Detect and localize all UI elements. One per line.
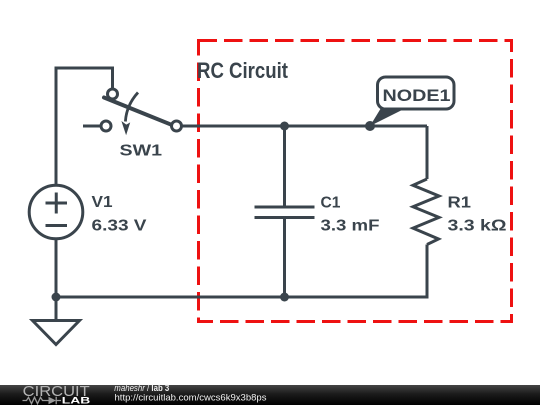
left throw terminal circle <box>101 121 111 131</box>
wire resistor bottom to rail <box>426 245 429 299</box>
svg-text:3.3 kΩ: 3.3 kΩ <box>448 218 507 235</box>
ground symbol <box>33 297 80 345</box>
wire V1 bottom to ground rail <box>55 239 58 298</box>
callout bubble <box>378 77 455 109</box>
top terminal circle <box>108 89 118 99</box>
junction dot capacitor bottom <box>280 293 289 302</box>
node NODE1 callout <box>365 77 454 131</box>
top rail wire from switch to resistor corner <box>182 125 427 128</box>
resistor R1 <box>413 126 439 299</box>
left throw stub wire <box>83 125 101 128</box>
wire top-left from V1 up and over to switch <box>56 68 113 184</box>
ground triangle <box>33 321 80 345</box>
svg-text:maheshr / lab 3: maheshr / lab 3 <box>114 383 169 393</box>
node A dot on wire <box>365 121 375 131</box>
callout tail <box>370 108 406 126</box>
bottom plate <box>255 216 315 219</box>
V1 body circle <box>29 185 83 239</box>
wire corner down to resistor top <box>426 126 429 179</box>
red dashed boundary box (RC Circuit) <box>199 41 512 322</box>
svg-text:C1: C1 <box>321 195 341 212</box>
wire bottom plate to bottom rail <box>283 219 286 297</box>
svg-text:3.3 mF: 3.3 mF <box>321 218 380 235</box>
right terminal circle <box>172 121 182 131</box>
footer bar <box>0 385 540 405</box>
junction dot capacitor top <box>280 122 289 131</box>
svg-text:LAB: LAB <box>62 396 91 405</box>
V1 minus mark <box>46 224 68 227</box>
actuation arrow arc <box>125 93 138 122</box>
zigzag body <box>413 179 439 245</box>
junction dot at ground node <box>52 293 61 302</box>
top plate <box>255 206 315 209</box>
svg-text:6.33 V: 6.33 V <box>92 218 148 235</box>
svg-text:RC Circuit: RC Circuit <box>197 58 289 83</box>
wire top rail to top plate <box>283 126 286 206</box>
svg-text:V1: V1 <box>92 194 113 211</box>
switch SW1 <box>83 89 182 135</box>
ground stem wire <box>55 297 58 321</box>
svg-text:NODE1: NODE1 <box>383 86 451 105</box>
logo schematic squiggle (resistor + diode) <box>23 397 62 404</box>
V1 plus mark <box>46 193 68 214</box>
voltage source V1 <box>29 185 83 239</box>
svg-text:http://circuitlab.com/cwcs6k9x: http://circuitlab.com/cwcs6k9x3b8ps <box>115 393 267 403</box>
svg-text:SW1: SW1 <box>120 143 163 160</box>
blade <box>104 98 173 126</box>
bottom rail wire <box>55 296 428 299</box>
svg-text:R1: R1 <box>448 195 472 212</box>
capacitor C1 <box>255 126 315 297</box>
actuation arrowhead <box>121 121 130 135</box>
